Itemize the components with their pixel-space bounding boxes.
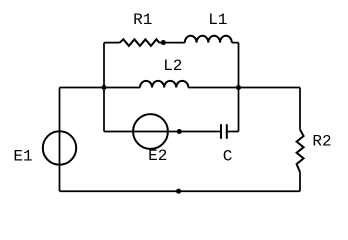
svg-text:R1: R1 — [133, 11, 152, 29]
svg-text:L2: L2 — [163, 57, 182, 75]
svg-text:C: C — [223, 148, 233, 166]
svg-text:R2: R2 — [312, 133, 331, 151]
svg-text:E2: E2 — [148, 147, 167, 165]
svg-text:L1: L1 — [208, 11, 227, 29]
svg-text:E1: E1 — [13, 147, 32, 165]
